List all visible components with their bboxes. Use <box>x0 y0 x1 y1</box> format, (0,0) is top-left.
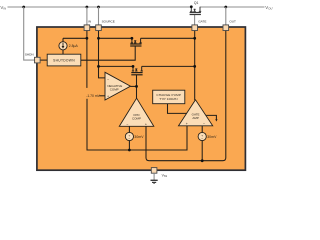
svg-text:30mV: 30mV <box>207 135 217 139</box>
wire FPD minus stub <box>128 127 130 133</box>
voltage source 30mV left <box>125 132 133 140</box>
current source 2.8uA <box>59 42 67 50</box>
voltage source 30mV right <box>198 132 206 140</box>
svg-text:SHUTDOWN: SHUTDOWN <box>53 58 75 62</box>
junction dot IN/2.8uA <box>86 37 89 40</box>
transistor M2 internal clamp upper <box>130 38 142 46</box>
wire VIN top rail left <box>8 6 192 8</box>
svg-text:IN: IN <box>88 20 91 24</box>
wire 30mV source 1 to rail A <box>128 141 130 150</box>
wire negative comp output to dot <box>131 85 137 87</box>
M1 source junction dot <box>132 65 135 68</box>
svg-text:−: − <box>128 137 130 141</box>
junction dot GATE lower <box>193 65 196 68</box>
junction dot GATE upper <box>193 37 196 40</box>
wire SOURCE pad down <box>98 31 100 67</box>
transistor M1 internal clamp lower <box>131 66 143 74</box>
wire IN pad down <box>86 31 88 88</box>
op-amp FPD comp <box>119 98 154 126</box>
pad SOURCE <box>96 25 102 31</box>
Q1 body-source junction dot <box>190 5 193 8</box>
wire Q1 gate to GATE pad <box>194 15 196 26</box>
svg-text:OUT: OUT <box>229 20 236 24</box>
junction dot rail B / 30mV 2 <box>201 159 204 162</box>
wire negative comp plus input <box>99 66 105 78</box>
transistor Q1 <box>190 7 202 15</box>
wire IN to 2.8uA source <box>63 37 87 39</box>
svg-text:2.8µA: 2.8µA <box>69 44 79 48</box>
wire SHDN drop <box>24 7 35 60</box>
Q1 body arrow <box>193 9 196 11</box>
wire dot down to FPD comp output <box>136 86 138 98</box>
svg-text:−: − <box>203 122 205 126</box>
wire shutdown output to M2 gate <box>81 46 135 60</box>
svg-text:GATE: GATE <box>198 20 206 24</box>
internal wires <box>40 31 226 161</box>
wire SOURCE to M2 <box>99 37 132 39</box>
wire M2 to GATE net <box>141 37 195 39</box>
arrowhead gate amp feedback <box>215 119 217 121</box>
pad OUT <box>223 25 229 31</box>
wire SHDN pad to shutdown box <box>40 59 47 61</box>
svg-text:VOUT: VOUT <box>265 5 273 11</box>
pad GATE <box>192 25 198 31</box>
block charge pump <box>153 90 185 104</box>
junction dot SOURCE upper <box>97 37 100 40</box>
junction dot SOURCE branch <box>97 6 100 9</box>
pad VSS <box>151 168 157 174</box>
wire 30mV source 2 to rail B <box>201 141 203 161</box>
junction dot rail A / 30mV 1 <box>128 149 131 152</box>
op-amp gate amp <box>179 100 213 126</box>
M2 source junction dot <box>131 37 134 40</box>
wire SOURCE to M1 <box>99 65 134 67</box>
svg-text:AMP: AMP <box>192 116 199 120</box>
junction dot OUT branch <box>224 6 227 9</box>
wire FPD plus input down to rail B <box>146 127 149 161</box>
M1 body arrow <box>135 69 138 71</box>
wire -1.70mV stub to minus input <box>100 95 105 97</box>
junction dot SHDN branch <box>22 6 25 9</box>
pad SHDN <box>35 57 41 63</box>
svg-text:SHDN: SHDN <box>25 53 34 57</box>
wire IN drop <box>86 7 88 25</box>
ground <box>151 180 158 184</box>
IC body <box>37 27 246 170</box>
svg-text:Q1: Q1 <box>194 1 199 5</box>
wire 2.8uA to shutdown box <box>62 50 64 54</box>
svg-text:SOURCE: SOURCE <box>102 20 115 24</box>
junction dot IN branch <box>86 6 89 9</box>
svg-text:−: − <box>107 78 109 82</box>
svg-text:+: + <box>186 122 188 126</box>
wire charge pump to gate amp <box>168 104 188 114</box>
wire gate amp feedback <box>206 115 216 119</box>
svg-text:VIN: VIN <box>0 5 6 11</box>
op-amp negative comp <box>105 72 131 100</box>
wire -1.70mV lower segment to rail A <box>87 99 187 150</box>
wire gate amp minus stub <box>201 126 203 133</box>
svg-text:30mV: 30mV <box>134 135 144 139</box>
M2 body arrow <box>134 40 137 42</box>
svg-text:TYP 100kHz: TYP 100kHz <box>159 97 178 101</box>
wire 2.8uA top stub <box>62 38 64 42</box>
svg-text:COMP: COMP <box>132 117 141 121</box>
svg-text:VSS: VSS <box>162 173 168 178</box>
wire M1 gate lead <box>136 75 138 87</box>
wire VSS pad to ground <box>153 173 155 180</box>
svg-text:-1.70 mV: -1.70 mV <box>86 94 100 98</box>
svg-text:+: + <box>145 123 147 127</box>
svg-text:+: + <box>107 95 109 99</box>
svg-text:COMP: COMP <box>110 88 119 92</box>
wire GATE pad down to gate amp output <box>194 31 196 101</box>
wire rail B / OUT net <box>149 31 226 161</box>
wire M1 to GATE net <box>142 65 195 67</box>
wire top rail right of Q1 <box>200 6 265 8</box>
wire OUT drop <box>225 7 227 25</box>
junction dot SOURCE lower <box>97 65 100 68</box>
svg-text:−: − <box>201 137 203 141</box>
svg-text:−: − <box>126 123 128 127</box>
pad IN <box>84 25 90 31</box>
junction dot comparator outputs <box>135 85 138 88</box>
wire SOURCE drop <box>98 7 100 25</box>
shutdown block <box>47 54 81 66</box>
